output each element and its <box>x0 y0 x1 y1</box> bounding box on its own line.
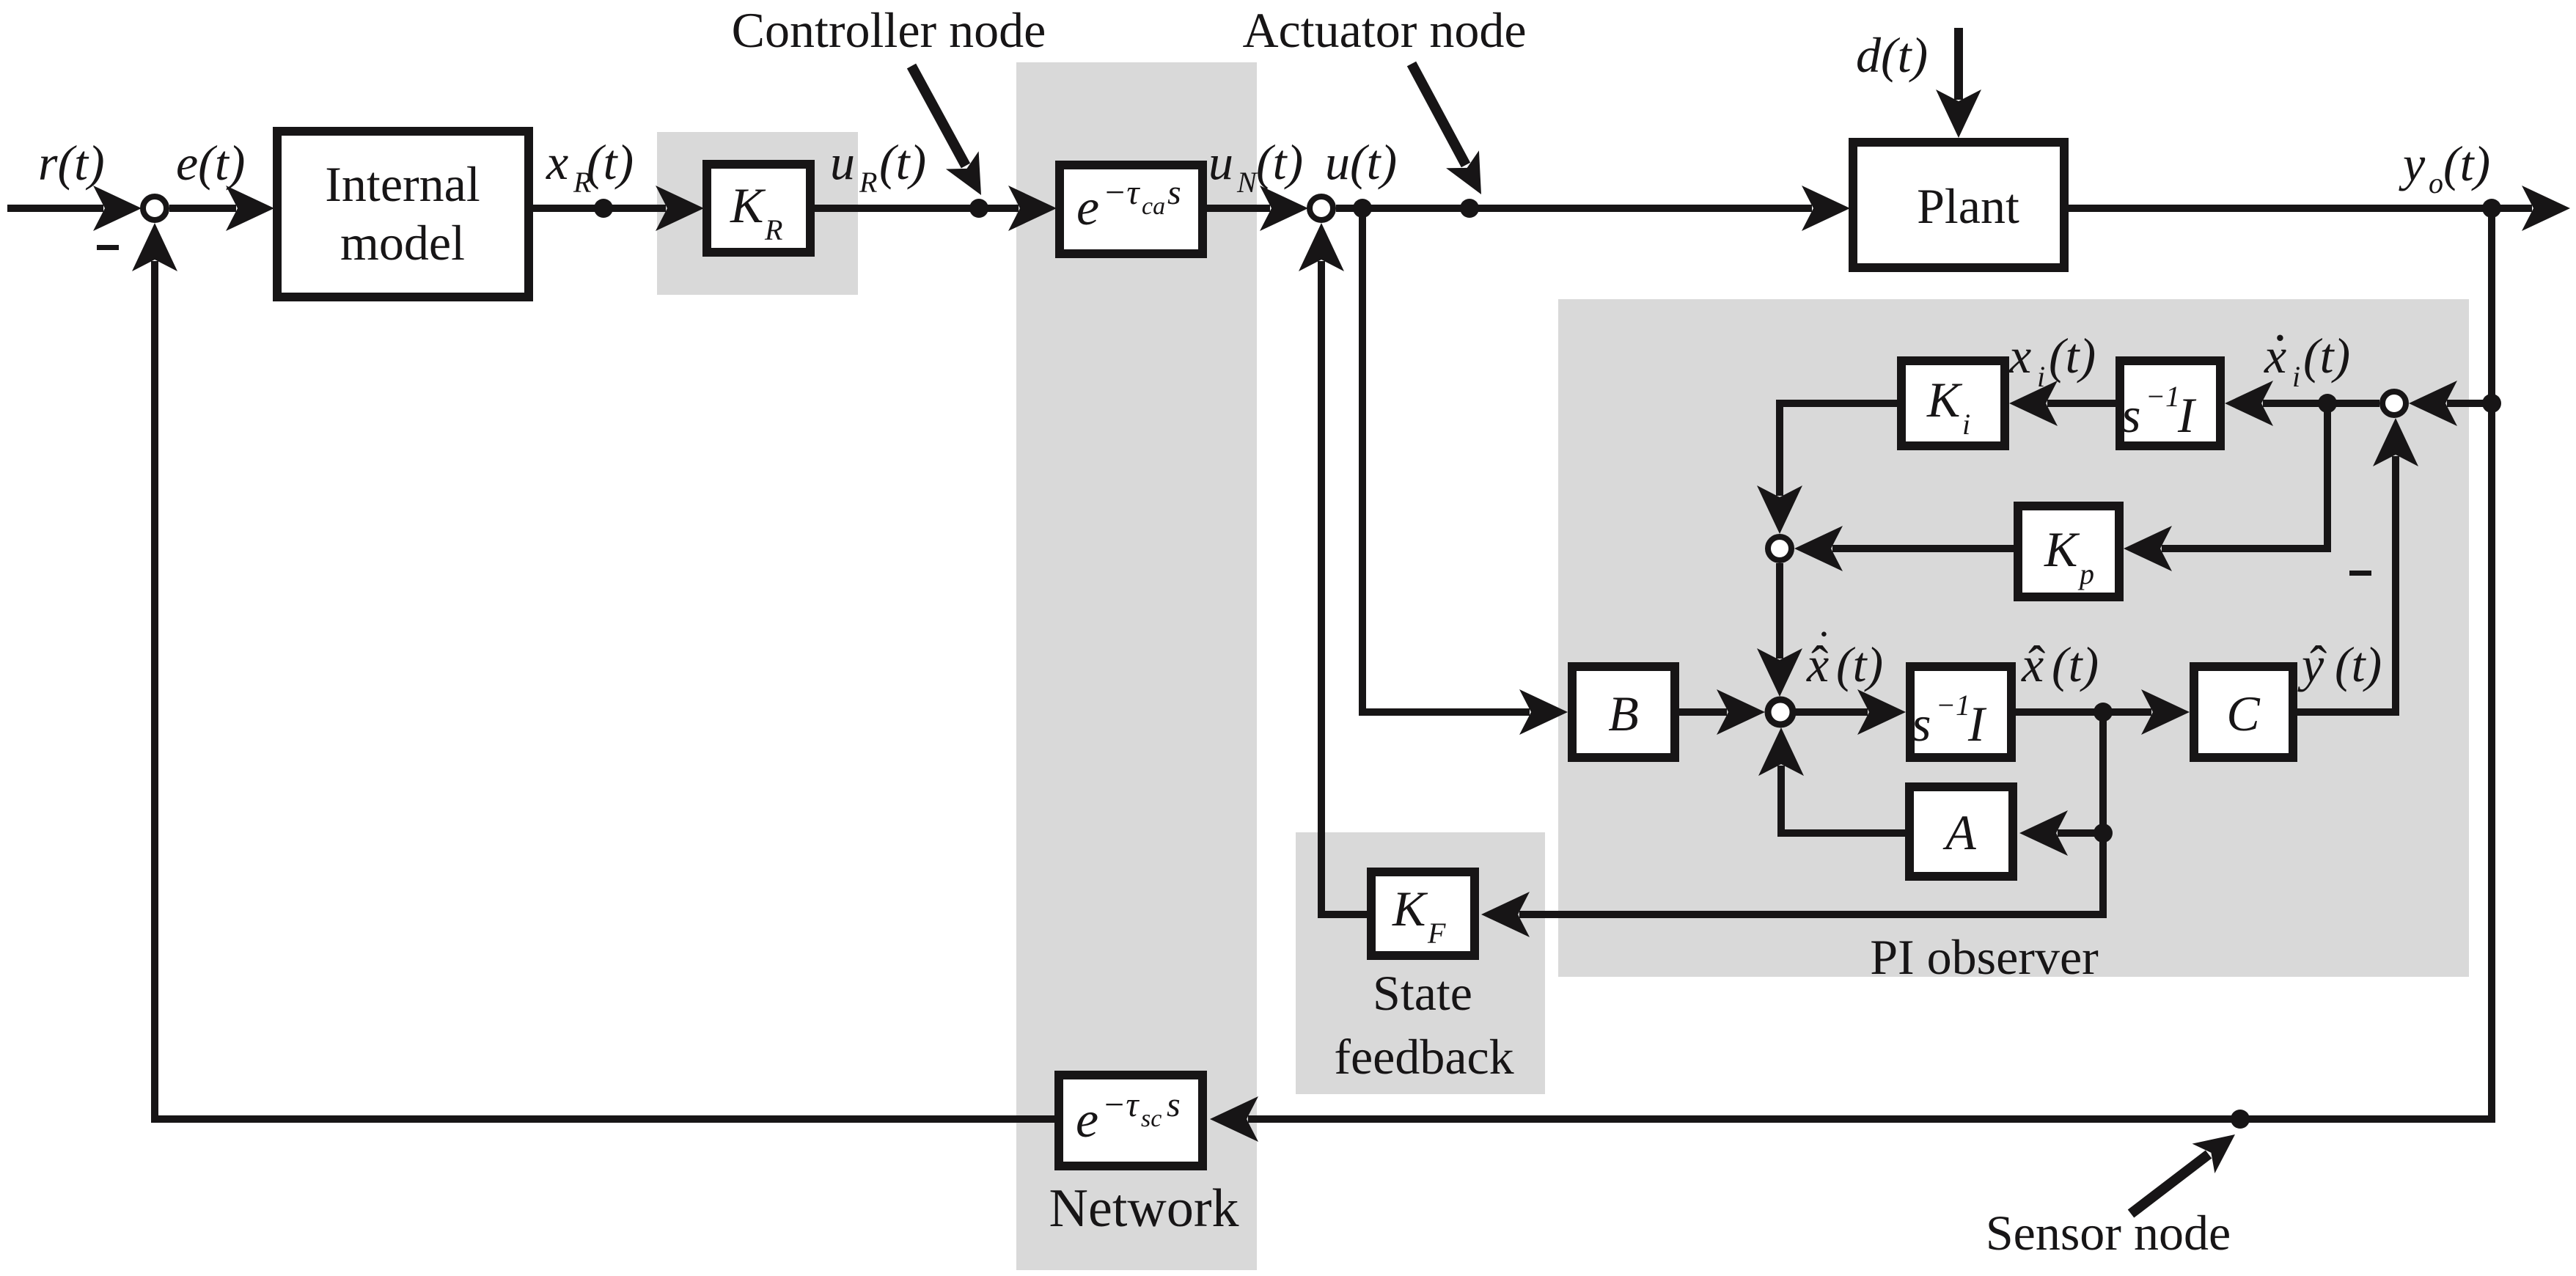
controller node pointer arrow <box>911 66 997 204</box>
svg-text:Actuator node: Actuator node <box>1242 2 1526 58</box>
block Internal model <box>277 131 529 297</box>
actuator node pointer arrow <box>1412 64 1497 203</box>
wire into A <box>2058 829 2103 837</box>
svg-text:PI observer: PI observer <box>1870 929 2099 985</box>
svg-text:(t): (t) <box>1836 637 1883 692</box>
node dot on x_R(t) wire <box>594 199 613 218</box>
network shading (gray vertical strip) <box>1016 62 1257 1270</box>
svg-text:o: o <box>2429 166 2443 199</box>
block A <box>1909 787 2013 876</box>
arrowhead into summing junction 5 left <box>1717 689 1765 735</box>
wire x_R(t) from Internal model to K_R <box>533 205 666 212</box>
node dot x_hat <box>2094 703 2113 722</box>
block Plant <box>1853 142 2064 268</box>
svg-text:K: K <box>1926 372 1963 428</box>
svg-text:ˆ: ˆ <box>2028 637 2045 693</box>
svg-text:s: s <box>1912 696 1931 752</box>
svg-text:Controller node: Controller node <box>732 2 1046 58</box>
node dot on A feedback <box>2094 824 2113 843</box>
arrowhead into K_i <box>2009 381 2058 426</box>
svg-text:(t): (t) <box>2049 328 2096 384</box>
arrowhead up into summing junction 5 bottom <box>1758 727 1804 776</box>
svg-text:x: x <box>546 134 568 190</box>
svg-text:I: I <box>2177 387 2197 443</box>
label y_o(t) <box>2399 136 2490 199</box>
svg-text:(t): (t) <box>2303 328 2350 384</box>
arrowhead up into summing junction 3 <box>2373 418 2418 466</box>
svg-text:(t): (t) <box>1256 134 1303 190</box>
node dot on y_o feedback at xdot_i row <box>2482 394 2501 413</box>
arrowhead into summing junction 1 <box>93 186 142 231</box>
svg-text:ca: ca <box>1142 193 1165 220</box>
node dot on y_o(t) <box>2482 199 2501 218</box>
PI observer shading (large gray region) <box>1558 299 2469 977</box>
wire from y_o line into summing junction 3 <box>2447 400 2492 407</box>
svg-text:Internal: Internal <box>325 156 480 212</box>
label u(t) <box>1325 134 1397 190</box>
svg-text:I: I <box>1967 696 1987 752</box>
svg-text:K: K <box>1392 881 1428 936</box>
svg-text:R: R <box>859 166 877 199</box>
summing junction 5 (state derivative sum) <box>1768 700 1793 725</box>
svg-text:(t): (t) <box>2052 637 2099 692</box>
node dot xdot_i <box>2318 394 2337 413</box>
svg-text:e(t): e(t) <box>176 135 245 191</box>
svg-text:N: N <box>1236 166 1258 199</box>
svg-text:K: K <box>730 177 766 233</box>
wire from A to summing junction 5 bottom <box>1781 766 1905 833</box>
wire from K_F up to summing junction 2 <box>1321 261 1367 914</box>
svg-text:Plant: Plant <box>1917 178 2019 234</box>
wire x_i from integrator upper to K_i <box>2047 400 2116 407</box>
block integrator s^-1 I lower <box>1910 667 2011 758</box>
arrowhead into summing junction 4 right <box>1794 526 1843 571</box>
svg-text:p: p <box>2077 557 2094 590</box>
svg-text:i: i <box>1962 408 1970 441</box>
arrowhead into summing junction 3 right <box>2409 381 2457 426</box>
arrowhead into K_F <box>1481 892 1530 937</box>
arrowhead into Plant <box>1802 186 1850 231</box>
svg-text:˙: ˙ <box>2270 323 2290 387</box>
svg-text:u(t): u(t) <box>1325 134 1397 190</box>
wire from K_p to summing junction 4 <box>1832 545 2014 552</box>
label PI observer <box>1870 929 2099 985</box>
svg-text:y: y <box>2399 136 2426 191</box>
arrowhead into C <box>2141 689 2190 735</box>
arrowhead into integrator upper <box>2225 381 2273 426</box>
wire from summing junction 4 down to summing junction 5 <box>1776 563 1783 659</box>
arrowhead into integrator lower <box>1857 689 1906 735</box>
node dot actuator node <box>1460 199 1479 218</box>
svg-text:A: A <box>1942 804 1976 860</box>
svg-text:x: x <box>2008 328 2031 384</box>
svg-text:(t): (t) <box>879 134 926 190</box>
block K_p <box>2018 506 2119 597</box>
node dot after summing junction 2 <box>1353 199 1372 218</box>
svg-text:u: u <box>1208 134 1233 190</box>
wire u_N(t) from delay to summing junction 2 <box>1207 205 1270 212</box>
block delay e^-tau_sc s <box>1059 1075 1203 1166</box>
arrowhead into K_R <box>656 186 704 231</box>
svg-text:Network: Network <box>1049 1178 1239 1239</box>
label x_R(t) <box>546 134 634 199</box>
svg-text:R: R <box>764 213 782 246</box>
summing junction 3 (observer error) <box>2382 392 2406 415</box>
wire from xdot_i node down and into K_p <box>2162 403 2327 549</box>
svg-text:−1: −1 <box>2146 380 2180 413</box>
wire r(t) input <box>7 205 103 212</box>
svg-text:˙: ˙ <box>1816 623 1832 672</box>
wire x_hat from integrator lower to C <box>2016 708 2151 716</box>
svg-text:s: s <box>2121 387 2140 443</box>
arrowhead up into summing junction 1 <box>132 223 177 271</box>
summing junction 2 (actuator input) <box>1310 197 1333 220</box>
summing junction 1 (error) <box>143 197 166 220</box>
block K_i <box>1901 361 2005 446</box>
svg-text:model: model <box>340 215 465 271</box>
arrowhead output y_o(t) <box>2522 186 2570 231</box>
wire y_hat from C up to summing junction 3 <box>2297 456 2396 712</box>
svg-text:e: e <box>1076 1092 1098 1148</box>
svg-text:(t): (t) <box>587 134 634 190</box>
svg-text:i: i <box>2037 360 2045 393</box>
wire d(t) disturbance into Plant <box>1954 28 1963 100</box>
wire from delay e^-tau_sc s back to summing junction 1 <box>155 261 1054 1119</box>
wire e(t) from summing junction 1 to Internal model <box>169 205 236 212</box>
wire u_R(t) from K_R to delay e^-tau_ca s <box>815 205 1019 212</box>
label x_i(t) <box>2008 328 2096 393</box>
svg-text:F: F <box>1427 917 1446 950</box>
label minus at summing junction 3 <box>2349 571 2371 576</box>
svg-text:s: s <box>1167 1085 1181 1124</box>
arrowhead down into summing junction 4 <box>1757 485 1802 534</box>
sensor node pointer arrow <box>2131 1120 2246 1214</box>
label Actuator node <box>1242 2 1526 58</box>
wire from x_hat node down to A and K_F <box>1519 712 2103 914</box>
svg-text:d(t): d(t) <box>1856 27 1928 83</box>
block delay e^-tau_ca s <box>1060 165 1203 254</box>
svg-text:State: State <box>1373 965 1472 1021</box>
arrowhead into delay e^-tau_sc s <box>1210 1096 1258 1142</box>
block K_R <box>707 164 810 252</box>
svg-text:r(t): r(t) <box>38 135 105 191</box>
svg-text:u: u <box>830 134 855 190</box>
svg-text:Sensor node: Sensor node <box>1986 1205 2231 1261</box>
svg-text:(t): (t) <box>2335 637 2382 692</box>
wire from summing junction 5 to integrator s^-1 I lower <box>1796 708 1868 716</box>
wire xdot_i from summing junction 3 to integrator s^-1 I upper <box>2263 400 2379 407</box>
arrowhead down into summing junction 5 top <box>1757 648 1802 697</box>
svg-text:e: e <box>1076 180 1099 236</box>
label State feedback <box>1334 965 1513 1085</box>
label e(t) <box>176 135 245 191</box>
state feedback shading (gray behind K_F) <box>1296 832 1545 1094</box>
wire u(t) from summing junction 2 to Plant <box>1336 205 1812 212</box>
arrowhead into K_p <box>2124 526 2172 571</box>
label xdot_hat(t) <box>1806 623 1883 693</box>
wire from K_i down to summing junction 4 <box>1780 403 1897 496</box>
svg-text:−1: −1 <box>1936 689 1970 722</box>
svg-text:ˆ: ˆ <box>2310 637 2327 693</box>
label Controller node <box>732 2 1046 58</box>
label y_hat(t) <box>2297 637 2382 693</box>
node dot controller node <box>969 199 988 218</box>
block K_F <box>1371 872 1475 956</box>
arrowhead into B <box>1519 689 1568 735</box>
label u_N(t) <box>1208 134 1303 199</box>
label r(t) <box>38 135 105 191</box>
block B <box>1572 667 1675 758</box>
label x_hat(t) <box>2021 637 2099 693</box>
arrowhead into Internal model <box>226 186 274 231</box>
svg-text:K: K <box>2044 521 2080 577</box>
svg-text:s: s <box>1167 173 1181 212</box>
controller gain shading (gray behind K_R) <box>657 132 858 295</box>
wire y_o(t) from Plant to output <box>2069 205 2532 212</box>
wire from u(t) node down to B <box>1362 208 1530 712</box>
label minus at summing junction 1 <box>97 245 119 250</box>
svg-text:i: i <box>2292 360 2300 393</box>
arrowhead into A right <box>2019 810 2068 856</box>
label Sensor node <box>1986 1205 2231 1261</box>
svg-text:(t): (t) <box>2443 136 2490 191</box>
label u_R(t) <box>830 134 926 199</box>
summing junction 4 (PI sum) <box>1768 537 1791 560</box>
wire from B to summing junction 5 <box>1679 708 1727 716</box>
label d(t) <box>1856 27 1928 83</box>
arrowhead d(t) into Plant top <box>1936 89 1981 138</box>
node dot sensor node on bottom wire <box>2231 1110 2250 1129</box>
arrowhead into delay e^-tau_ca s <box>1008 186 1057 231</box>
label xdot_i(t) <box>2264 323 2350 393</box>
svg-text:B: B <box>1608 686 1639 741</box>
svg-text:−τ: −τ <box>1103 173 1140 212</box>
wire y_o feedback down right side and along bottom <box>1248 208 2492 1119</box>
svg-text:sc: sc <box>1141 1105 1162 1132</box>
arrowhead into summing junction 2 <box>1260 186 1308 231</box>
block C <box>2194 667 2293 758</box>
label Network <box>1049 1178 1239 1239</box>
svg-text:C: C <box>2226 686 2260 741</box>
block integrator s^-1 I upper <box>2120 361 2220 446</box>
svg-text:feedback: feedback <box>1334 1029 1513 1085</box>
svg-text:−τ: −τ <box>1102 1085 1140 1124</box>
arrowhead up into summing junction 2 <box>1299 223 1344 271</box>
